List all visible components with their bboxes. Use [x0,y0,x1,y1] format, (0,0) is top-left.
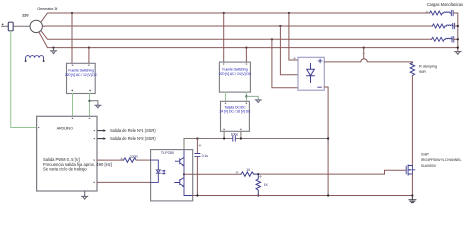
svg-text:220: 220 [22,12,28,17]
wire ARDUINO gnd to opto [97,181,151,183]
load RLC phase 3 [432,37,453,41]
svg-text:Se varia ciclo de trabajo: Se varia ciclo de trabajo [43,167,87,172]
wire [223,131,225,138]
wire neutral stub to hop [363,47,365,49]
wire Vee internal [184,174,193,195]
node [257,194,259,196]
svg-text:IGBT: IGBT [421,153,430,157]
wire phase L3 [41,31,431,39]
node junction L1-PSU2 [223,12,225,14]
wire [272,39,298,87]
ground load bus [455,52,461,55]
node junction L1-PSU1 [71,12,73,14]
ground IGBT emitter [409,196,416,203]
microcontroller ARDUINO [37,116,97,191]
wire gate [258,170,405,174]
node opto output [183,173,185,175]
wire [71,13,73,63]
wire emitter [411,174,413,196]
wire [289,13,298,60]
svg-text:ARDUINO: ARDUINO [57,127,73,131]
node junction gnd tap [88,100,90,102]
node junction N-PSU2 [245,47,247,49]
wire bridge plus [324,59,412,63]
svg-text:220 [V] AC / 24 [V] DC: 220 [V] AC / 24 [V] DC [219,72,252,76]
node [196,137,198,139]
wire [2,25,9,27]
wire neutral N [39,33,458,48]
wire [136,159,150,161]
wire earth green [11,31,37,128]
svg-text:10: 10 [246,168,250,172]
capacitor C2 100u [233,136,236,141]
wire 0V [245,92,247,101]
wire opto output [184,173,241,175]
node [196,194,198,196]
svg-text:220R: 220R [130,155,139,159]
wire phase L2 [42,25,432,27]
node junction L2-bridge [279,25,281,27]
node [240,137,242,139]
wire SSR output 1 [98,130,104,132]
wire PWM [97,159,124,161]
svg-text:0.1u: 0.1u [202,154,209,158]
node junction L3-bridge [271,38,273,40]
wire 18V rail [184,138,328,140]
svg-text:Salida de Rele Nº1 (SSR): Salida de Rele Nº1 (SSR) [110,128,156,133]
svg-text:1K: 1K [264,183,269,187]
node [327,137,329,139]
node input terminal [2,24,4,26]
transistor Q1 upper [177,157,184,165]
svg-text:220 [V] AC / 12 [V] DC: 220 [V] AC / 12 [V] DC [65,73,98,77]
node [327,194,329,196]
transistor Q2 lower [176,178,184,187]
svg-text:TLP250: TLP250 [161,150,175,155]
wire Vee rail [193,195,413,197]
resistor R2 10 [241,172,258,176]
wire [90,101,98,105]
svg-text:24 [V] DC / 18 [V] DC: 24 [V] DC / 18 [V] DC [219,109,251,113]
ground generator neutral [52,47,54,49]
wire 0V [89,94,91,117]
wire 24V [225,92,227,101]
node [457,47,459,49]
wire load return bus [457,13,459,51]
wire SSR output 2 [98,138,104,140]
node gate divider [257,173,259,175]
wire Vcc internal [183,150,185,175]
wire Vcc 18V [183,139,185,150]
dc converter U2 [221,101,250,131]
resistor R4 damping [410,63,414,76]
wire bridge minus [324,87,328,196]
wire [88,48,90,64]
node pin dots [38,63,247,183]
svg-text:51A/900V: 51A/900V [421,164,437,168]
svg-text:IRG4PF50W N-CHANNEL: IRG4PF50W N-CHANNEL [421,158,462,162]
transistor Q3 IGBT [406,165,415,175]
node [223,137,225,139]
inductor field winding [26,56,44,61]
resistor R1 220R [124,158,137,162]
wire [13,25,30,27]
svg-text:Salida de Rele Nº2 (SSR): Salida de Rele Nº2 (SSR) [110,136,156,141]
wire [245,48,247,63]
wire phase L1 [41,13,429,22]
svg-text:Fuente Switching: Fuente Switching [68,69,93,73]
svg-text:Cargas Monofasicas: Cargas Monofasicas [427,2,463,7]
node pin marks [121,11,429,178]
wire [280,26,298,75]
load RLC phase 2 [432,24,453,28]
ground PSU1 [95,105,101,108]
LED D1 [151,160,159,170]
opto driver U1 TLP250 [151,150,193,201]
power supply PSU1 [67,63,96,93]
ground ARDUINO [82,191,88,199]
wire [240,131,242,138]
wire [223,13,225,62]
svg-text:90R: 90R [419,69,426,74]
node junction gnd tap [245,95,247,97]
node [457,25,459,27]
node junction N-PSU1 [88,47,90,49]
node [411,194,413,196]
node [457,38,459,40]
svg-text:Generator 3f: Generator 3f [37,6,58,11]
node junction L1-bridge [288,12,290,14]
power supply PSU2 [219,62,250,92]
fuse F1 [8,22,13,31]
wire [246,96,258,99]
svg-text:100u: 100u [231,133,239,137]
svg-text:Fuente Switching: Fuente Switching [222,67,247,71]
resistor R3 1K [256,174,260,195]
wire 12V [72,94,74,117]
capacitor C1 0.1u [196,139,198,154]
rectifier BR1 [298,57,324,90]
wire collector [411,76,413,166]
ground PSU2 [255,100,261,103]
generator G1 [30,20,42,32]
load RLC phase 1 [430,11,451,15]
